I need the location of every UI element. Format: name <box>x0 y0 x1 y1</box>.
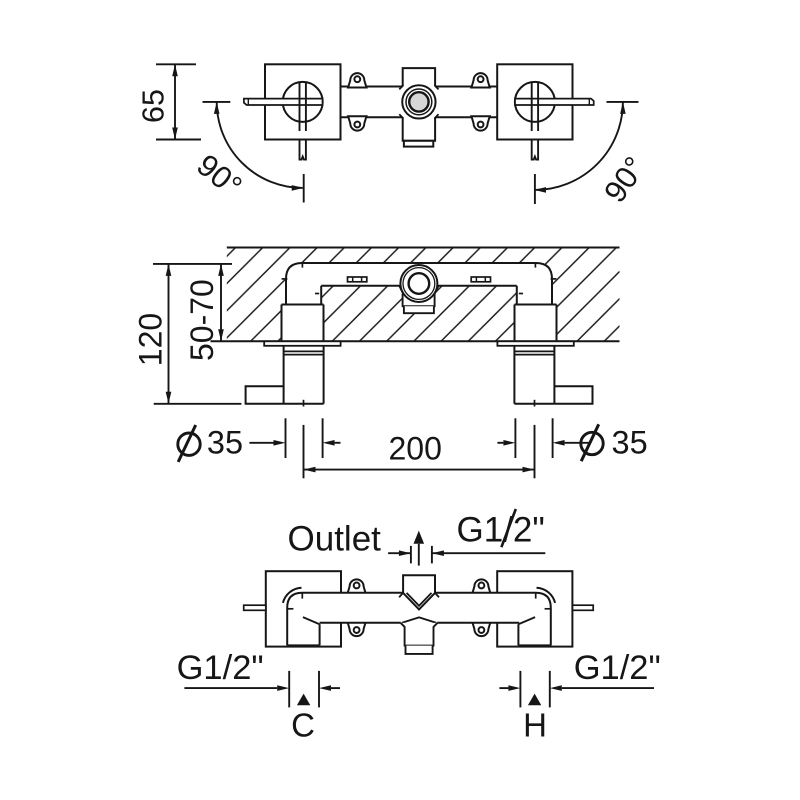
front ear bottom-right <box>472 622 490 636</box>
top view: connecting bar bottom edge <box>341 116 403 118</box>
left valve square <box>265 64 341 139</box>
left 90 deg end tick <box>303 174 305 203</box>
svg-text:65: 65 <box>136 89 170 123</box>
center outlet middle ring <box>406 89 432 115</box>
svg-text:50-70: 50-70 <box>184 279 220 361</box>
dim 120/50-70 top extension line <box>153 263 232 265</box>
front elbow ticks <box>301 593 303 599</box>
right step block <box>554 386 592 404</box>
right lever rod <box>515 99 594 105</box>
front right elbow outer arc <box>537 588 556 603</box>
right escutcheon flange <box>497 341 573 346</box>
port wings <box>399 85 403 89</box>
left stem below square <box>300 140 306 160</box>
dim dia35 left extension ticks <box>285 418 287 458</box>
left lever rod <box>244 99 323 105</box>
svg-text:H: H <box>523 706 547 743</box>
front bottom port peak <box>402 617 436 622</box>
dim 120 bottom extension line <box>154 403 242 405</box>
front left rod stub <box>244 605 266 610</box>
front left pipe <box>286 618 288 645</box>
left handle circle <box>283 82 323 122</box>
front bar top outline <box>287 593 551 618</box>
dim 65 extension lines <box>156 63 196 65</box>
right pipe below wall <box>513 346 515 404</box>
left step block <box>246 386 284 404</box>
svg-text:G1/2": G1/2" <box>574 649 661 687</box>
dim dia35 right label <box>581 432 603 454</box>
left 90 deg extension line <box>203 101 231 103</box>
outlet shoulders <box>399 286 403 294</box>
svg-text:G1/2": G1/2" <box>177 649 264 687</box>
mounting ear bottom-right <box>471 116 489 130</box>
pipe centerline ticks <box>303 400 305 407</box>
front ear top-right <box>472 579 490 593</box>
dim 200 extension lines <box>303 425 305 478</box>
front bar bottom edge <box>320 622 401 624</box>
center bottom flange <box>404 141 433 147</box>
dim dia35 right extension ticks <box>514 418 516 458</box>
bottom-left dim ticks <box>288 671 290 708</box>
wall bottom line <box>211 340 620 342</box>
C marker triangle <box>297 694 310 706</box>
left escutcheon flange <box>264 341 340 346</box>
svg-text:35: 35 <box>612 425 648 461</box>
outlet rect <box>403 294 435 307</box>
ear slot left <box>348 277 367 282</box>
ear slot right <box>471 277 490 282</box>
elbow inner edges <box>320 286 322 305</box>
outlet center marker <box>414 531 425 544</box>
left block <box>282 304 324 306</box>
front bottom port <box>401 623 438 646</box>
front outlet pentagon <box>403 575 435 609</box>
svg-text:G1/2": G1/2" <box>457 511 545 550</box>
front left square <box>266 571 341 646</box>
right 90 deg arc <box>535 102 623 190</box>
mounting ear bottom-left <box>348 116 366 130</box>
front bar white fill <box>287 593 551 646</box>
elbow joint ticks <box>301 263 303 268</box>
left 90 deg arc <box>217 102 303 188</box>
right valve square <box>497 64 572 139</box>
front right rod stub <box>573 605 594 610</box>
wall hatching <box>227 248 620 342</box>
outlet flange <box>404 306 434 313</box>
left pipe below wall <box>283 346 285 404</box>
right block <box>515 304 557 306</box>
right stem below square <box>532 140 538 160</box>
right handle circle <box>515 82 555 122</box>
right handle stem lines <box>531 82 533 131</box>
svg-text:35: 35 <box>207 425 243 461</box>
dim 65 dimension line <box>174 64 176 139</box>
valve bar bottom edge <box>321 285 400 287</box>
bottom-left dim <box>184 687 277 689</box>
bottom-right dim ticks <box>519 671 521 708</box>
right 90 deg end tick <box>534 174 536 204</box>
dim 50-70 dimension line <box>220 264 222 341</box>
svg-text:Outlet: Outlet <box>288 519 382 558</box>
mounting ear top-right <box>471 73 489 87</box>
mounting ear top-left <box>348 73 366 87</box>
dim 120 dimension line <box>168 264 170 404</box>
top view: connecting bar top edge <box>341 86 403 88</box>
svg-text:C: C <box>291 706 315 743</box>
outlet circle section <box>400 265 437 302</box>
center outlet outer circle <box>402 85 435 118</box>
svg-text:120: 120 <box>133 313 169 366</box>
wall top line <box>227 247 620 249</box>
dim dia35 left label <box>178 433 200 455</box>
front ear bottom-left <box>347 622 365 636</box>
center top port <box>403 68 435 86</box>
front right pipe <box>550 618 552 645</box>
bottom-right dim <box>562 687 654 689</box>
right 90 deg extension line <box>607 101 639 103</box>
left handle stem lines <box>299 82 301 131</box>
embedded valve body white silhouette <box>282 263 557 341</box>
center outlet inner ring with grey core <box>409 92 428 111</box>
front ear top-left <box>347 579 365 593</box>
dim 200 dimension line <box>304 469 535 471</box>
front right square <box>497 571 572 646</box>
dim dia35 left leader <box>249 442 273 444</box>
outlet dim ticks <box>410 546 412 564</box>
valve bar top and corner outline <box>286 263 552 305</box>
H marker triangle <box>528 694 541 706</box>
front left elbow outer arc <box>283 588 302 603</box>
outlet dim line <box>388 552 411 554</box>
center bottom port <box>403 117 435 141</box>
dim dia35 right leader <box>565 442 589 444</box>
svg-text:200: 200 <box>389 431 442 467</box>
